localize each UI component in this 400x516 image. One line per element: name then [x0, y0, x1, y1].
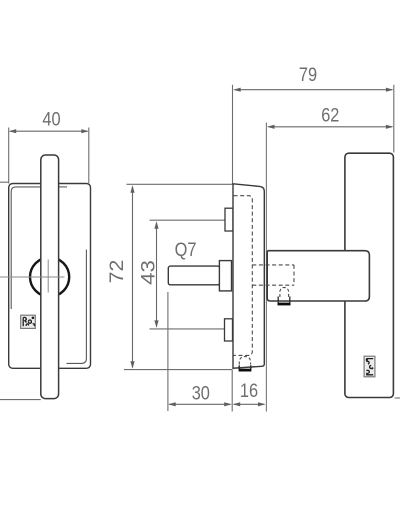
- clip on neck: dashed dome: [280, 287, 289, 297]
- dim 79 extension left (above plate): [232, 85, 234, 184]
- front bottom extension cropped at left edge: [0, 399, 41, 401]
- dim 40 line: [9, 129, 89, 133]
- plate side hidden dashed rounded rect: [234, 196, 253, 356]
- dim 43 line: [154, 221, 158, 328]
- spindle hidden dashed top: [252, 264, 294, 266]
- plate front inner outline top-left segment: [11, 187, 41, 309]
- svg-text:72: 72: [107, 260, 128, 284]
- plate top extension cropped at left edge: [0, 181, 9, 183]
- dim 79 extension right: [393, 85, 395, 153]
- dim 72 line: [130, 185, 134, 369]
- svg-text:Q7: Q7: [175, 238, 197, 260]
- handle rose circle (front): [30, 257, 69, 296]
- dim 30 extension left: [167, 292, 169, 411]
- lever handle (front): [41, 155, 59, 399]
- dim 43 extension top: [150, 219, 226, 221]
- screw lug bottom: [225, 319, 233, 341]
- dim 79 line: [233, 88, 393, 92]
- dim 72 extension top: [127, 183, 233, 185]
- svg-text:40: 40: [42, 108, 60, 130]
- clip at plate bottom: solid body: [239, 365, 251, 369]
- plate front inner outline top tick: [59, 186, 67, 188]
- logo front plate: [21, 315, 36, 328]
- neck (side): [267, 251, 369, 301]
- svg-text:43: 43: [138, 260, 159, 285]
- spindle hidden dashed end: [293, 265, 295, 285]
- clip at plate bottom: thick bar: [239, 369, 252, 372]
- dim 62 line: [267, 125, 393, 129]
- dim 40 extension line left: [8, 128, 10, 184]
- svg-text:62: 62: [321, 104, 339, 126]
- lever bottom extension cropped at right edge: [395, 397, 400, 399]
- plate front outer outline: [9, 184, 91, 369]
- shared extension below plate left: [231, 370, 233, 412]
- dim 40 extension line right: [88, 128, 90, 184]
- clip on neck: thick bar: [278, 303, 291, 306]
- centerline vertical: [47, 260, 49, 293]
- lever handle (side): [345, 153, 394, 397]
- svg-text:30: 30: [192, 382, 210, 404]
- svg-text:16: 16: [240, 379, 258, 401]
- plate front inner outline bottom-right segment: [67, 250, 87, 364]
- screw lug top: [225, 208, 233, 231]
- dim 16 line: [233, 402, 266, 406]
- logo on lever side: [364, 356, 375, 377]
- clip at plate bottom: dashed dome: [239, 357, 250, 365]
- centerline horizontal: [0, 276, 65, 278]
- long extension line right of plate: [265, 123, 267, 412]
- dim 43 extension bottom: [150, 328, 225, 330]
- dim 30 line: [168, 402, 232, 406]
- square spindle: [168, 266, 219, 285]
- svg-text:79: 79: [299, 64, 317, 86]
- spindle boss: [219, 261, 231, 291]
- dim 72 extension bottom: [124, 369, 233, 371]
- clip on neck: solid body: [278, 297, 290, 303]
- spindle hidden dashed bottom: [252, 284, 294, 286]
- plate side body: [233, 184, 264, 368]
